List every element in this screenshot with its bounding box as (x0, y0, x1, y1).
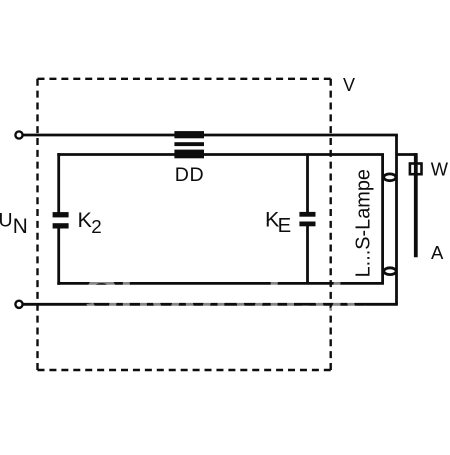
wire: right vertical (lamp feed, top corner down to bottom corner) (395, 135, 398, 304)
wire: left edge upper segment (above K2) (57, 153, 60, 213)
dashed enclosure box V : bottom edge (38, 369, 331, 371)
svg-text:L...S-Lampe: L...S-Lampe (353, 169, 375, 277)
wire: vertical through W down to point A (414, 153, 418, 257)
capacitor KE plates (299, 212, 315, 217)
wire: KE branch lower segment (306, 226, 309, 283)
capacitor K2 plates (53, 212, 69, 217)
wire: stub from right vertical to W branch (397, 153, 418, 156)
lamp electrode top (384, 174, 396, 181)
inductor DD winding bar top (174, 131, 204, 138)
lamp box: bottom rail (57, 282, 384, 285)
wire: left edge lower segment (below K2) (57, 228, 60, 285)
svg-text:E: E (278, 215, 292, 237)
lamp box: top rail (57, 153, 384, 156)
dashed enclosure box V : right edge (330, 79, 332, 370)
wire: KE branch upper segment (306, 155, 309, 213)
lamp electrode bottom (384, 268, 396, 275)
svg-text:N: N (13, 215, 28, 238)
svg-text:W: W (431, 159, 449, 180)
inductor DD winding bar bottom (174, 150, 204, 159)
fuse W box (410, 164, 422, 175)
dashed enclosure box V : top edge (38, 78, 331, 80)
svg-text:K: K (78, 208, 93, 232)
svg-text:V: V (343, 75, 355, 95)
dashed enclosure box V : left edge (36, 79, 38, 370)
terminal bottom-left (15, 301, 22, 308)
svg-text:DD: DD (175, 164, 205, 186)
wire: top horizontal from terminal to right corner (23, 134, 398, 137)
svg-text:U: U (0, 210, 13, 232)
svg-text:2: 2 (91, 216, 101, 237)
wire: bottom horizontal from terminal to right corner (23, 303, 398, 306)
svg-text:Shoprofi.de: Shoprofi.de (85, 268, 374, 324)
terminal top-left (15, 131, 22, 138)
inductor DD core bar middle (174, 142, 204, 146)
svg-text:A: A (431, 242, 444, 263)
lamp box: right wall (381, 155, 384, 284)
